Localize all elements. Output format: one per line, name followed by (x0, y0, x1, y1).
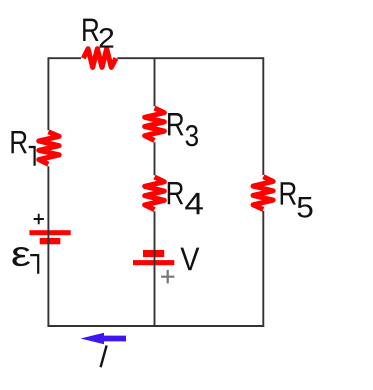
wire left upper (47, 57, 49, 130)
resistor R1 zigzag (39, 132, 59, 164)
wire middle lower (154, 211, 156, 327)
wire top-left segment (48, 57, 81, 59)
battery E1 plate long (positive) (29, 230, 70, 235)
label R5 subscript 5 (298, 197, 313, 218)
plus sign of battery V (gray) (161, 270, 174, 283)
label V (180, 248, 199, 271)
label R2 (83, 19, 98, 41)
current arrow I (blue, pointing left) (81, 333, 127, 345)
label E1 epsilon (12, 247, 30, 266)
resistor R5 zigzag (253, 177, 273, 210)
wire middle between R3 R4 (154, 142, 156, 175)
label R2 subscript 2 (100, 28, 114, 48)
plus sign of battery E1 (34, 214, 44, 224)
battery V plate short (negative) (143, 250, 164, 257)
battery E1 plate short (negative) (40, 238, 61, 244)
wire bottom (48, 325, 265, 327)
label I (italic current symbol) (101, 345, 107, 367)
battery V plate long (positive) (133, 260, 174, 265)
resistor R3 zigzag (145, 108, 165, 140)
label E1 subscript 1 (30, 255, 38, 274)
resistor R4 zigzag (145, 177, 165, 210)
wire middle upper (154, 58, 156, 106)
label R1 subscript 1 (29, 147, 35, 166)
label R4 subscript 4 (185, 193, 203, 214)
label R3 subscript 3 (186, 125, 198, 146)
wire left lower (47, 166, 49, 327)
label R3 (168, 113, 183, 135)
wire top-right segment (117, 57, 263, 59)
resistor R2 zigzag (83, 49, 116, 68)
label R5 (281, 182, 296, 204)
wire right upper (262, 57, 264, 175)
label R1 (11, 131, 26, 153)
label R4 (168, 182, 183, 204)
wire right lower (262, 211, 264, 327)
